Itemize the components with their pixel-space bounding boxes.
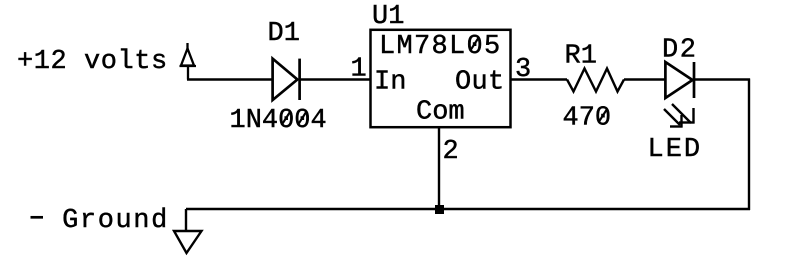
ground symbol triangle: [174, 231, 202, 253]
wire terminal to D1 anode: [187, 78, 272, 80]
pin name Com: [416, 98, 465, 128]
wire D2 cathode to right corner: [695, 78, 750, 80]
label D2: [662, 36, 698, 66]
svg-text:+12 volts: +12 volts: [17, 47, 168, 77]
diode D1: [273, 59, 300, 100]
value LED: [648, 135, 703, 165]
wire ground bus horizontal: [186, 208, 750, 210]
svg-text:Ground: Ground: [62, 206, 169, 236]
wire U1 pin 2 down to ground bus: [438, 128, 440, 210]
terminal +12V input arrow: [180, 43, 197, 80]
svg-text:1: 1: [351, 55, 367, 85]
svg-text:2: 2: [443, 137, 459, 167]
wire right vertical drop: [748, 79, 750, 211]
svg-text:D1: D1: [268, 19, 300, 49]
value 1N4004: [230, 106, 327, 136]
pin 1: [351, 55, 367, 85]
regulator IC U1 box: [371, 30, 511, 127]
wire R1 to D2 anode: [624, 78, 666, 80]
svg-text:D2: D2: [662, 36, 698, 66]
value 470: [563, 104, 612, 134]
svg-text:1N4004: 1N4004: [230, 106, 327, 136]
node - Ground label: [31, 206, 169, 236]
value LM78L05: [379, 32, 502, 62]
svg-text:In: In: [374, 68, 406, 98]
LED D2: [665, 62, 694, 98]
svg-text:Com: Com: [416, 98, 465, 128]
wire U1 pin 3 to R1: [511, 78, 568, 80]
svg-text:3: 3: [515, 55, 531, 85]
svg-text:R1: R1: [565, 42, 597, 72]
pin name In: [374, 68, 406, 98]
label D1: [268, 19, 300, 49]
pin 2: [443, 137, 459, 167]
svg-text:LED: LED: [648, 135, 703, 165]
svg-text:470: 470: [563, 104, 612, 134]
svg-text:Out: Out: [455, 68, 505, 98]
pin 3: [515, 55, 531, 85]
ground terminal stub: [185, 209, 187, 231]
svg-text:LM78L05: LM78L05: [379, 32, 502, 62]
label R1: [565, 42, 597, 72]
junction dot pin2/ground: [435, 205, 444, 214]
svg-text:U1: U1: [372, 2, 404, 32]
label U1: [372, 2, 404, 32]
pin name Out: [455, 68, 505, 98]
resistor R1: [567, 69, 624, 92]
wire D1 cathode to U1 pin 1: [300, 78, 370, 80]
LED D2 emission arrows: [664, 104, 695, 128]
node +12 volts label: [17, 47, 168, 77]
